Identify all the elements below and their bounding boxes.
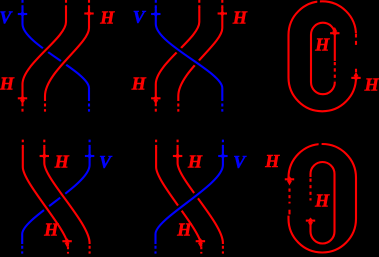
svg-text:V: V <box>0 7 13 27</box>
tick on H2 top (diagram 2) <box>218 10 227 16</box>
cut in outer loop right side (diagram 3) <box>352 33 360 76</box>
tick on inner loop (diagram 3) <box>330 27 339 36</box>
outer loop (diagram 3) <box>289 1 357 111</box>
svg-text:H: H <box>187 152 203 172</box>
svg-text:H: H <box>264 151 280 171</box>
strand H1 (diagram 2, red under) <box>156 0 200 112</box>
tick on V top (diagram 4) <box>85 153 94 159</box>
svg-text:H: H <box>364 74 379 94</box>
svg-text:H: H <box>131 74 147 94</box>
tick on V top (diagram 2) <box>151 11 160 17</box>
outer loop top self-crossing gap (diagram 3) <box>317 0 320 3</box>
tick on V top (diagram 1) <box>18 11 27 17</box>
cut in outer loop left side (diagram 6) <box>285 182 293 216</box>
strand H1 (diagram 4, red over) <box>23 140 68 254</box>
inner loop (diagram 6) <box>311 162 335 244</box>
tick on outer loop (diagram 6) <box>285 176 294 185</box>
dotted tail lower (diagram 3 outer) <box>355 69 357 77</box>
strand H2 (diagram 1, red over) <box>45 0 89 112</box>
dotted segment (diagram 6 inner) <box>309 179 311 201</box>
dotted segment (diagram 3 inner) <box>334 62 336 81</box>
svg-text:V: V <box>233 152 247 172</box>
tick on H1 end (diagram 4) <box>62 238 71 247</box>
strand H1 (diagram 1, red over) <box>23 0 67 112</box>
svg-text:H: H <box>232 8 248 28</box>
tick on H2 top (diagram 5) <box>173 153 182 159</box>
tick on H1 end (diagram 2) <box>151 95 160 104</box>
tick on outer loop (diagram 3) <box>351 72 360 81</box>
svg-text:H: H <box>314 35 330 55</box>
strand H2 (diagram 2, red under) <box>178 0 222 112</box>
tick on V top (diagram 5) <box>218 153 227 159</box>
tick on H1 end (diagram 1) <box>18 95 27 104</box>
svg-text:H: H <box>314 191 330 211</box>
svg-text:H: H <box>0 74 15 94</box>
strand V (diagram 5, blue over) <box>156 140 223 254</box>
svg-text:H: H <box>99 8 115 28</box>
dotted tail upper (diagram 6 outer) <box>288 189 290 204</box>
tick on H2 top (diagram 4) <box>40 153 49 159</box>
strand V (diagram 4, blue under) <box>22 140 89 254</box>
tick on H2 top (diagram 1) <box>84 10 93 16</box>
strand V (diagram 2, blue over) <box>156 0 223 112</box>
tick on H1 end (diagram 5) <box>196 238 205 247</box>
strand V (diagram 1, blue under) <box>23 0 90 112</box>
dotted tail lower (diagram 6 outer) <box>288 210 290 215</box>
tick on inner loop (diagram 6) <box>306 218 315 227</box>
strand H2 (diagram 4, red over) <box>44 140 89 254</box>
outer loop top self-crossing gap (diagram 6) <box>319 143 322 147</box>
inner loop (diagram 3) <box>311 23 335 95</box>
svg-text:V: V <box>99 152 113 172</box>
outer loop (diagram 6) <box>289 144 357 253</box>
cut in inner loop left side (diagram 6) <box>308 177 314 219</box>
dotted tail upper (diagram 3 outer) <box>355 34 357 47</box>
strand H1 (diagram 5, red under) <box>156 140 201 254</box>
strand H2 (diagram 5, red under) <box>178 140 223 254</box>
svg-text:H: H <box>54 152 70 172</box>
cut in inner loop right side (diagram 3) <box>332 61 338 82</box>
svg-text:H: H <box>176 220 192 240</box>
svg-text:H: H <box>43 220 59 240</box>
svg-text:V: V <box>133 7 147 27</box>
